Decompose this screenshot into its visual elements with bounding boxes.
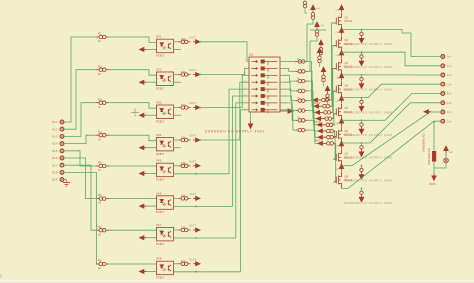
resistor RG5 [296, 99, 307, 103]
net arrow gate 3 [315, 110, 322, 114]
pad X1-9 [60, 178, 64, 182]
transistor Q5 [334, 104, 342, 121]
transistor Q2 [334, 36, 342, 53]
vcc arrow RP2 [315, 22, 319, 30]
net arrow GND opto OK3 [140, 113, 147, 117]
wire LED branch [434, 163, 446, 168]
svg-text:2x4: 2x4 [447, 64, 452, 68]
vcc arrow Q3 [339, 50, 343, 58]
pad J-5 [441, 92, 445, 96]
diode D3 [359, 78, 364, 89]
resistor R8 [96, 262, 109, 266]
vcc arrow Q2 [339, 28, 343, 36]
net arrow OUT1 [193, 40, 200, 44]
wire OUT1 to IC1 pin 1 [200, 42, 249, 62]
diode D1 [359, 32, 364, 43]
wire IC1 gnd [250, 112, 252, 123]
wire OUT5 to IC1 pin 5 [174, 89, 250, 174]
wire RG8 to gate node 8 [307, 130, 318, 143]
wire RM1 down [319, 63, 321, 67]
resistor R3 [96, 101, 109, 105]
svg-text:10k: 10k [181, 37, 186, 41]
resistor RP2 [315, 30, 319, 37]
transistor Q7 [334, 149, 342, 166]
svg-text:SANDERO KO SUPPLY 30A2: SANDERO KO SUPPLY 30A2 [205, 130, 265, 134]
diode D2 [359, 55, 364, 66]
wire R4 to opto pin 1 [109, 135, 157, 141]
resistor R4 [96, 133, 109, 137]
wire Q1 to J pad 1 [342, 30, 441, 57]
wire R6 to opto pin 1 [109, 198, 157, 200]
wire opto OK6 pin 2 [146, 205, 157, 207]
junction D7 [361, 165, 363, 167]
resistor R14 [179, 197, 191, 201]
pad J-6 [441, 101, 445, 105]
wire R1 to opto pin 1 [109, 37, 157, 43]
svg-text:X1-4: X1-4 [52, 142, 58, 146]
wire fuse to gnd [433, 162, 435, 174]
svg-text:2x4: 2x4 [447, 119, 452, 123]
IC1 input cell 6 [252, 94, 278, 99]
IC1 input cell 5 [252, 88, 278, 93]
vcc arrow RM2 [321, 67, 325, 75]
svg-text:OK3: OK3 [156, 100, 162, 104]
net arrow GND opto OK8 [140, 270, 147, 274]
wire Q5 to J pad 5 [342, 94, 441, 121]
IC1 input cell 2 [252, 67, 278, 72]
wire RG1 to gate node 1 [307, 62, 313, 101]
net arrow GND opto OK6 [140, 204, 147, 208]
junction D6 [361, 142, 363, 144]
wire OUT4 to IC1 pin 4 [200, 82, 249, 140]
wire RG7 to gate node 7 [307, 120, 318, 137]
svg-text:R5: R5 [98, 161, 102, 165]
wire RH1 to Q1 gate [331, 23, 334, 100]
junction D4 [361, 97, 363, 99]
wire opto OK2 pin 2 [146, 81, 157, 83]
wire opto OK3 pin 4 to R11 [174, 107, 179, 109]
resistor RP0 [303, 1, 307, 8]
net arrow gate 2 [314, 104, 321, 108]
transistor Q8 [334, 172, 342, 189]
wire IC1 pin 12 stub [280, 81, 286, 83]
wire X1-2 to opto 2 input [64, 70, 96, 130]
net arrow gate 1 [313, 98, 320, 102]
wire IC1 pin 13 stub [280, 88, 286, 90]
IC1 input cell 4 [252, 81, 278, 86]
wire fuse branch [433, 122, 435, 151]
net arrow gate 6 [318, 129, 325, 133]
wire X1-9 to ground [64, 180, 67, 183]
junction D3 [361, 74, 363, 76]
net arrow GND opto OK7 [140, 236, 147, 240]
svg-text:OUT6: OUT6 [189, 192, 197, 196]
diode D4 [359, 100, 364, 111]
resistor RH2 [321, 104, 332, 108]
transistor Q3 [334, 58, 342, 75]
wire RH4 to Q4 gate [332, 91, 335, 119]
junction fuse tap [433, 121, 435, 123]
wire RG4 to gate node 4 [307, 91, 316, 119]
pad X1-8 [60, 171, 64, 175]
svg-text:OUT8: OUT8 [189, 257, 197, 261]
junction D1 [361, 29, 363, 31]
opto OK5 [157, 163, 174, 177]
resistor R12 [179, 138, 191, 142]
svg-text:SANDERO KO SUPPLY 30A0: SANDERO KO SUPPLY 30A0 [344, 201, 393, 205]
vcc arrow Q6 [339, 119, 343, 127]
resistor R6 [96, 197, 109, 201]
resistor RP1 [311, 13, 315, 20]
wire RP1 down [312, 11, 314, 13]
wire opto OK4 pin 2 [146, 147, 157, 149]
wire RP1 to bus [307, 20, 313, 24]
wire OUT8 to IC1 pin 8 [174, 110, 250, 272]
resistor RH8 [325, 142, 336, 146]
svg-text:2x4: 2x4 [447, 101, 452, 105]
resistor R13 [179, 164, 191, 168]
wire opto OK4 pin 3 stub [174, 147, 182, 149]
pad X1-6 [60, 156, 64, 160]
wire RM3 stub [327, 94, 329, 95]
wire X1-8 to opto 8 input [64, 172, 97, 264]
gnd arrow IC1 [248, 121, 252, 129]
IC1 input cell 8 [252, 108, 278, 113]
svg-text:BUZ11: BUZ11 [345, 134, 353, 137]
vcc arrow Q1 [339, 5, 343, 13]
svg-text:2x4: 2x4 [447, 82, 452, 86]
transistor Q6 [334, 127, 342, 144]
svg-text:PC817: PC817 [156, 54, 165, 58]
junction OUT8 [195, 271, 197, 273]
svg-text:OK6: OK6 [156, 191, 162, 195]
resistor RH6 [325, 129, 336, 133]
svg-text:BUZ11: BUZ11 [345, 66, 353, 69]
ground [63, 183, 70, 187]
svg-text:R6: R6 [98, 193, 102, 197]
wire opto OK2 pin 4 to R10 [174, 74, 179, 76]
svg-text:R2: R2 [98, 64, 102, 68]
wire IC1 pin 9 to RG1 [286, 61, 297, 63]
junction OUT5 [195, 173, 197, 175]
svg-text:PC817: PC817 [156, 210, 165, 214]
svg-text:PC817: PC817 [156, 152, 165, 156]
wire RG2 to gate node 2 [307, 71, 314, 106]
pad X1-7 [60, 163, 64, 167]
svg-text:X1-6: X1-6 [52, 156, 58, 160]
wire opto OK7 pin 2 [146, 237, 157, 239]
svg-text:OUT5: OUT5 [189, 159, 197, 163]
opto OK1 [157, 39, 174, 53]
bottom window strip [0, 280, 474, 283]
resistor R15 [179, 228, 191, 232]
net arrow gate 4 [316, 117, 323, 121]
wire X1-1 to opto 1 input [64, 37, 96, 122]
opto OK2 [157, 72, 174, 86]
resistor R11 [179, 106, 191, 110]
wire opto OK1 pin 2 [146, 49, 157, 51]
wire IC1 pin 16 to RG8 [286, 110, 297, 130]
wire LED to vcc [445, 154, 447, 159]
wire IC1 pin 11 to RG3 [286, 75, 297, 81]
svg-text:X1-2: X1-2 [52, 127, 58, 131]
pad J-7 [441, 110, 445, 114]
wire Q6 to J pad 6 [342, 103, 441, 143]
resistor RM3 [326, 94, 330, 101]
svg-text:X1-3: X1-3 [52, 135, 58, 139]
IC IC1 body [249, 57, 280, 112]
vcc arrow Q7 [339, 141, 343, 149]
junction OUT6 [195, 206, 197, 208]
diode D8 [359, 191, 364, 202]
IC1 input cell 1 [252, 60, 278, 65]
net arrow OUT7 [193, 228, 200, 232]
wire opto OK1 pin 3 stub [174, 49, 182, 51]
svg-text:IC1: IC1 [249, 53, 254, 57]
wire gate bus top [310, 29, 326, 31]
svg-text:SANDERO KO: SANDERO KO [422, 133, 426, 152]
junction OUT2 [199, 74, 201, 76]
net arrow GND opto OK1 [140, 48, 147, 52]
svg-text:R8: R8 [98, 259, 102, 263]
wire IC1 pin 15 stub [280, 102, 286, 104]
svg-text:BUZ11: BUZ11 [345, 88, 353, 91]
wire opto OK5 pin 2 [146, 173, 157, 175]
wire OUT7 to IC1 pin 7 [174, 103, 250, 238]
net arrow IC1 common [280, 109, 294, 114]
svg-text:OUT1: OUT1 [189, 35, 197, 39]
svg-text:OUT2: OUT2 [189, 68, 197, 72]
svg-text:10k: 10k [181, 70, 186, 74]
svg-text:VG33: VG33 [429, 183, 436, 186]
net arrow OUT5 [193, 164, 200, 168]
svg-text:10k: 10k [181, 135, 186, 139]
pad X1-5 [60, 149, 64, 153]
svg-text:PC817: PC817 [156, 119, 165, 123]
transistor Q1 [334, 13, 342, 30]
svg-text:SANDERO KO: SANDERO KO [428, 148, 431, 165]
wire RG3 to gate node 3 [307, 81, 315, 112]
resistor R9 [179, 40, 191, 44]
svg-text:BUZ11: BUZ11 [345, 179, 353, 182]
junction OUT4 [199, 139, 201, 141]
resistor RP3 [319, 48, 323, 55]
pad J-8 [441, 119, 445, 123]
wire opto OK7 pin 4 to R15 [174, 229, 179, 231]
wire opto OK5 pin 4 to R13 [174, 165, 179, 167]
wire X1-5 to opto 5 input [64, 151, 96, 166]
opto OK7 [157, 227, 174, 241]
wire RP3 down [320, 55, 322, 60]
junction OUT3 [199, 107, 201, 109]
pad J-4 [441, 82, 445, 86]
svg-text:10k: 10k [181, 194, 186, 198]
vcc arrow RP3 [319, 40, 323, 48]
wire IC1 pin 16 stub [280, 109, 286, 111]
resistor RH7 [325, 135, 336, 139]
resistor RG2 [296, 70, 307, 74]
resistor RG8 [296, 128, 307, 132]
opto OK6 [157, 196, 174, 210]
svg-text:2x4: 2x4 [447, 55, 452, 59]
wire R7 to opto pin 1 [109, 229, 157, 231]
wire RM3 down [327, 101, 329, 105]
svg-text:OK1: OK1 [156, 35, 162, 39]
net arrow gate 7 [318, 135, 325, 139]
resistor R1 [96, 35, 109, 39]
svg-text:PC817: PC817 [156, 242, 165, 246]
IC1 input cell 3 [252, 74, 278, 79]
svg-text:BUZ11: BUZ11 [345, 156, 353, 159]
net arrow OUT3 [193, 106, 200, 110]
wire RP2 to bus [310, 37, 317, 41]
resistor RH4 [323, 117, 334, 121]
svg-text:X1-7: X1-7 [52, 163, 58, 167]
wire OUT2 to IC1 pin 2 [200, 68, 249, 74]
junction D5 [361, 119, 363, 121]
svg-text:OUT3: OUT3 [189, 101, 197, 105]
net arrow OUT6 [193, 196, 200, 200]
wire Q4 to J pad 4 [342, 84, 441, 97]
wire opto OK2 pin 3 stub [174, 81, 182, 83]
wire IC1 pin 14 to RG6 [286, 96, 297, 111]
wire opto OK3 pin 2 [146, 114, 157, 116]
resistor R10 [179, 73, 191, 77]
pad J-3 [441, 73, 445, 77]
net arrow GND opto OK4 [140, 146, 147, 150]
wire RG6 to gate node 6 [307, 111, 318, 132]
opto OK3 [157, 105, 174, 119]
vcc arrow Q4 [339, 73, 343, 81]
pad X1-3 [60, 135, 64, 139]
wire IC1 pin 11 stub [280, 74, 286, 76]
wire Q2 to J pad 2 [342, 52, 441, 66]
net arrow OUT8 [193, 262, 200, 266]
svg-text:R4: R4 [98, 130, 102, 134]
wire Q7 source to D7 [361, 166, 363, 169]
svg-text:2x4: 2x4 [447, 73, 452, 77]
wire RP0 down [305, 8, 307, 13]
wire Q1 source to D1 [361, 30, 363, 33]
wire pullup bus 2 [309, 41, 311, 71]
wire opto OK3 pin 3 stub [174, 114, 182, 116]
resistor RG1 [296, 60, 307, 64]
svg-text:10k: 10k [181, 103, 186, 107]
pad J-2 [441, 64, 445, 68]
vcc arrow LED1 [444, 146, 448, 154]
wire RH7 to Q7 gate [334, 137, 336, 159]
svg-text:OK4: OK4 [156, 133, 162, 137]
diode D5 [359, 123, 364, 134]
junction pullup 1 [295, 61, 297, 63]
wire opto OK8 pin 4 to R16 [174, 263, 179, 265]
resistor R7 [96, 228, 109, 232]
wire IC1 pin 10 to RG2 [286, 68, 297, 71]
wire Q3 to J pad 3 [342, 74, 441, 76]
vcc arrow Q5 [339, 96, 343, 104]
wire Q5 source to D5 [361, 120, 363, 123]
svg-text:OUT4: OUT4 [189, 134, 197, 138]
wire RH8 to Q8 gate [334, 143, 336, 182]
svg-text:R1: R1 [98, 32, 102, 36]
wire IC1 pin 12 to RG4 [286, 82, 297, 91]
resistor RG3 [296, 79, 307, 83]
wire RM2 down [323, 82, 325, 86]
wire opto OK8 pin 2 [146, 271, 157, 273]
junction OUT7 [195, 237, 197, 239]
svg-text:OK7: OK7 [156, 223, 162, 227]
svg-text:BUZ11: BUZ11 [345, 20, 353, 23]
net arrow GND opto OK5 [140, 172, 147, 176]
wire RH5 to Q5 gate [334, 114, 335, 125]
svg-text:2x4: 2x4 [447, 92, 452, 96]
wire RH2 to Q2 gate [332, 46, 334, 106]
wire Q2 source to D2 [361, 52, 363, 55]
opto OK8 [157, 261, 174, 275]
pad X1-2 [60, 127, 64, 131]
wire RM1 stub [319, 56, 321, 57]
wire RH3 to Q3 gate [333, 68, 334, 112]
IC1 input cell 7 [252, 101, 278, 106]
junction OUT1 [199, 41, 201, 43]
svg-text:BUZ11: BUZ11 [345, 43, 353, 46]
wire X1-4 to opto 4 input [64, 135, 96, 143]
opto OK4 [157, 137, 174, 151]
wire IC1 pin 10 stub [280, 67, 286, 69]
vcc arrow RM1 [317, 48, 321, 56]
wire opto OK6 pin 4 to R14 [174, 197, 179, 199]
svg-text:X1-1: X1-1 [52, 120, 58, 124]
wire Q7 diagonal to J pad 7 [342, 112, 441, 166]
svg-text:OK8: OK8 [156, 257, 162, 261]
resistor RM2 [322, 75, 326, 82]
resistor RG4 [296, 89, 307, 93]
diode D6 [359, 146, 364, 157]
net arrow gate 8 [318, 141, 325, 145]
svg-text:R3: R3 [98, 97, 102, 101]
svg-text:10k: 10k [181, 225, 186, 229]
wire Q4 source to D4 [361, 98, 363, 101]
wire IC1 pin 15 to RG7 [286, 103, 297, 120]
fuse F1 [432, 151, 436, 162]
vcc arrow RP1 [311, 5, 315, 13]
transistor Q4 [334, 81, 342, 98]
wire IC1 pin 9 stub [280, 61, 286, 63]
net arrow OUT2 [193, 73, 200, 77]
pad X1-1 [60, 120, 64, 124]
wire X1-3 to opto 3 input [64, 103, 96, 137]
wire opto OK1 pin 4 to R9 [174, 41, 179, 43]
wire IC1 pin 14 stub [280, 95, 286, 97]
diode D7 [359, 168, 364, 179]
svg-text:OUT7: OUT7 [189, 224, 197, 228]
wire R5 to opto pin 1 [109, 165, 157, 167]
svg-text:PC817: PC817 [156, 86, 165, 90]
resistor RM1 [318, 56, 322, 63]
svg-text:X1-9: X1-9 [52, 178, 58, 182]
wire RH6 to Q6 gate [334, 131, 336, 137]
wire Q8 diagonal to fuse net [342, 121, 441, 188]
wire RP2 down [316, 28, 318, 30]
resistor RG6 [296, 109, 307, 113]
svg-text:10k: 10k [181, 161, 186, 165]
vcc arrow RM3 [325, 86, 329, 94]
wire X1-6 to opto 6 input [64, 158, 96, 199]
junction D2 [361, 51, 363, 53]
resistor RH3 [322, 111, 333, 115]
resistor R2 [96, 68, 109, 72]
wire RG5 to gate node 5 [307, 101, 317, 125]
